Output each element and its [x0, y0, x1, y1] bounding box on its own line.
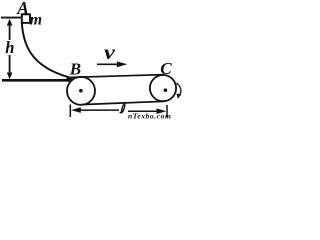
svg-text:m: m	[30, 11, 42, 28]
svg-text:C: C	[160, 59, 172, 78]
svg-text:nTexbo.com: nTexbo.com	[128, 112, 171, 120]
svg-text:B: B	[69, 60, 81, 79]
svg-text:h: h	[5, 38, 14, 57]
svg-text:A: A	[16, 0, 29, 18]
svg-text:v: v	[104, 41, 116, 63]
